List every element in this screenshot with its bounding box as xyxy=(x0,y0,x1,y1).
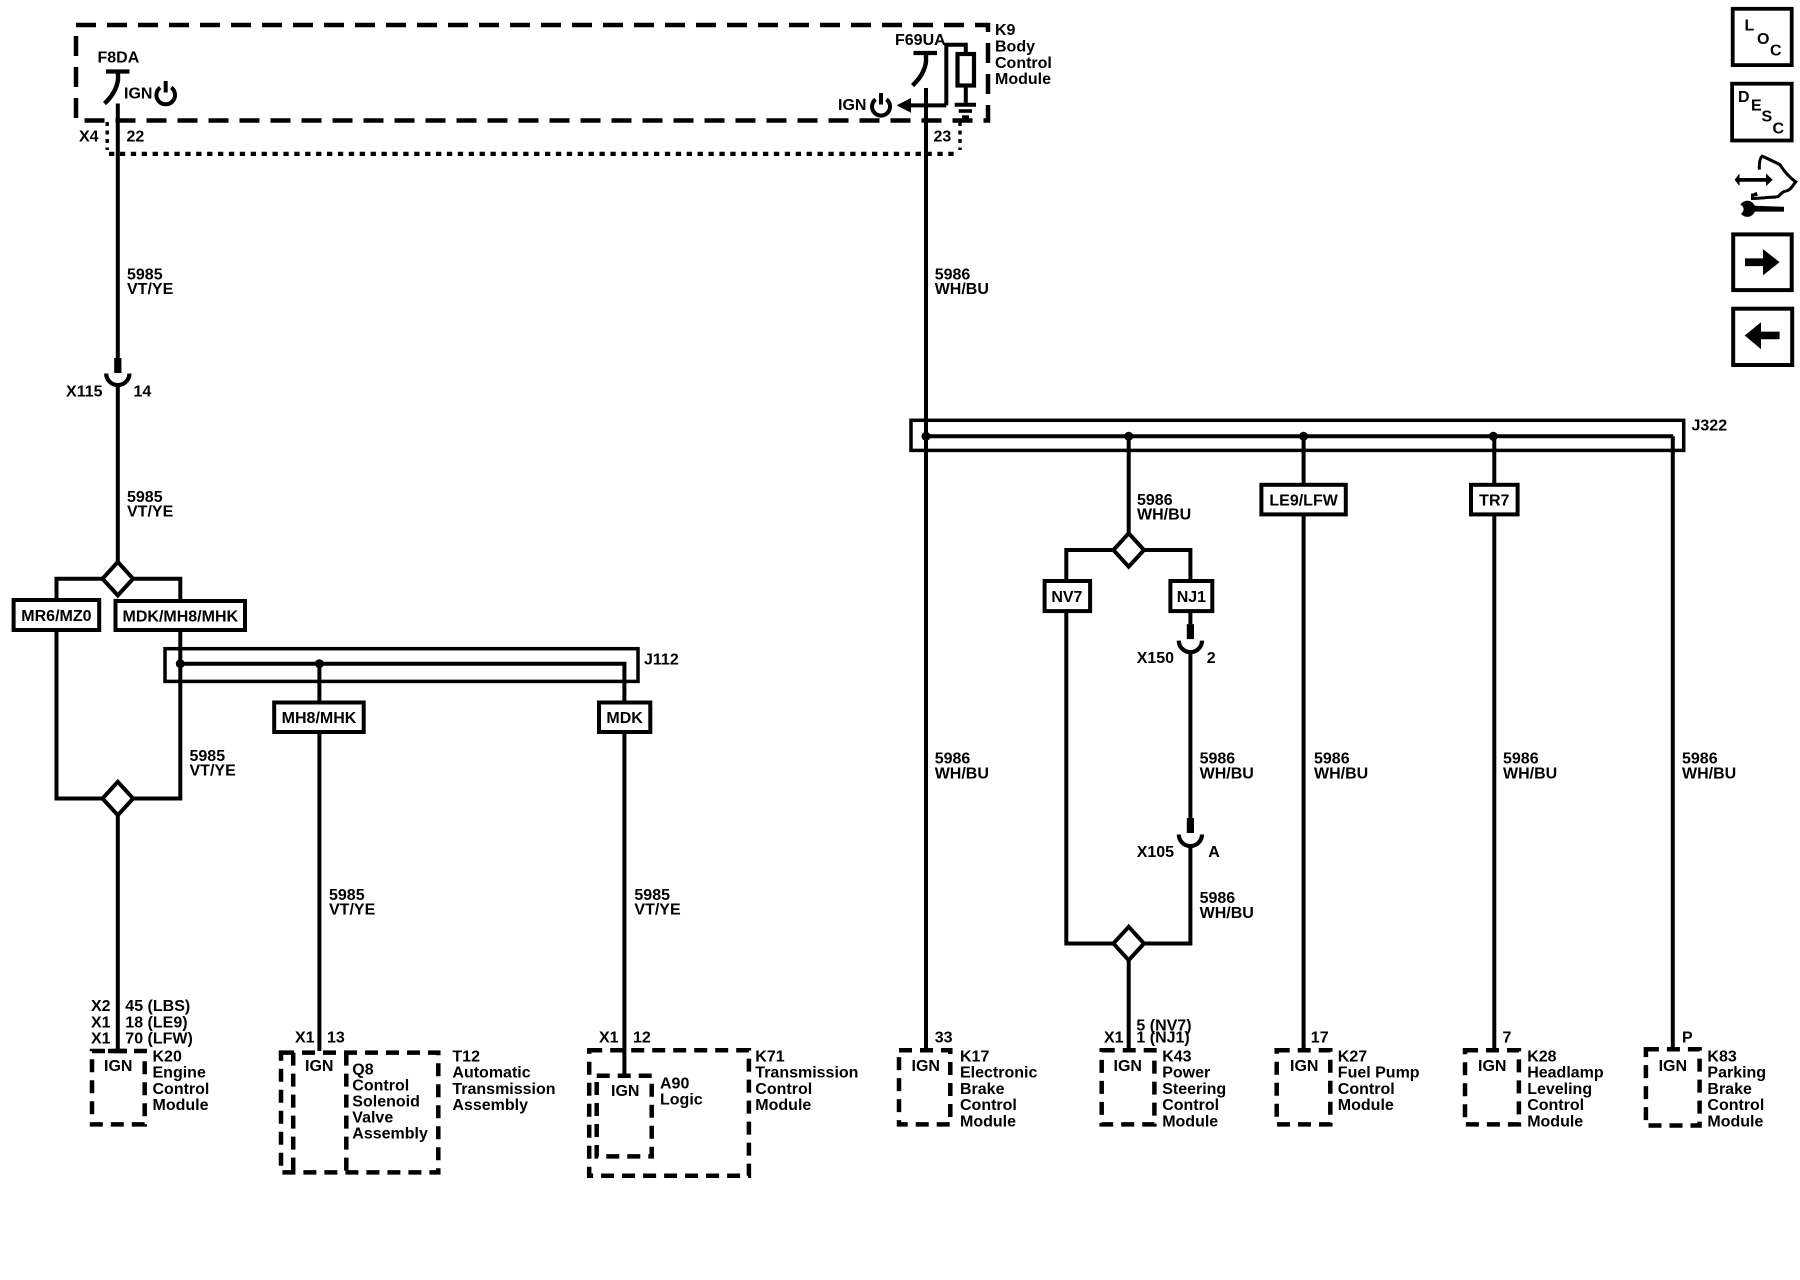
svg-text:Assembly: Assembly xyxy=(352,1125,428,1142)
option box NJ1 xyxy=(1170,581,1212,611)
svg-text:Automatic: Automatic xyxy=(452,1065,530,1082)
wire J322 branch to LE9/LFW xyxy=(1302,436,1306,485)
svg-text:Assembly: Assembly xyxy=(452,1097,528,1114)
svg-text:45 (LBS): 45 (LBS) xyxy=(125,998,190,1015)
svg-text:K20: K20 xyxy=(153,1048,182,1065)
option box MH8/MHK xyxy=(274,703,364,733)
svg-text:Module: Module xyxy=(1338,1097,1394,1114)
wire X150 to X105, 5986 WH/BU xyxy=(1188,652,1192,818)
splice diamond (upper right) xyxy=(1113,533,1144,566)
bus bar J322 xyxy=(911,420,1684,450)
svg-text:Headlamp: Headlamp xyxy=(1527,1065,1604,1082)
K71 pin labels X1 12 xyxy=(599,1030,651,1047)
IGN power symbol (left) xyxy=(124,81,175,104)
svg-text:J112: J112 xyxy=(644,652,679,669)
option box MR6/MZ0 xyxy=(14,600,100,630)
svg-text:K17: K17 xyxy=(960,1048,989,1065)
svg-text:X1: X1 xyxy=(1104,1030,1124,1047)
wire resistor to ground xyxy=(964,86,968,103)
svg-text:X115: X115 xyxy=(66,384,103,401)
svg-text:K27: K27 xyxy=(1338,1048,1367,1065)
svg-text:X150: X150 xyxy=(1137,650,1174,667)
wire to resistor branch xyxy=(946,45,966,106)
wire J322 right end down to K83 xyxy=(1671,436,1675,1049)
hotspot icon (double arrow, outline, wrench) xyxy=(1734,156,1796,217)
svg-text:X1: X1 xyxy=(91,1014,111,1031)
wire NJ1 to X150 xyxy=(1188,611,1192,624)
resistor (pull-down) xyxy=(958,54,975,86)
wire J322 branch to NV7/NJ1 splice xyxy=(1127,436,1131,534)
svg-text:Electronic: Electronic xyxy=(960,1065,1037,1082)
svg-text:Control: Control xyxy=(1707,1097,1764,1114)
svg-text:Body: Body xyxy=(995,39,1035,56)
svg-text:70 (LFW): 70 (LFW) xyxy=(125,1031,193,1048)
svg-text:P: P xyxy=(1682,1030,1693,1047)
K27 module label xyxy=(1338,1048,1420,1114)
svg-text:Power: Power xyxy=(1162,1065,1210,1082)
T12 Automatic Transmission Assembly dashed box xyxy=(281,1053,438,1173)
svg-text:Module: Module xyxy=(1707,1114,1763,1131)
svg-text:L: L xyxy=(1745,18,1755,35)
option box MDK xyxy=(599,703,650,733)
svg-text:Leveling: Leveling xyxy=(1527,1081,1592,1098)
svg-text:Control: Control xyxy=(153,1081,210,1098)
svg-text:VT/YE: VT/YE xyxy=(127,281,174,298)
svg-text:TR7: TR7 xyxy=(1479,492,1509,509)
svg-text:Engine: Engine xyxy=(153,1065,206,1082)
wire MR6/MZ0 down to lower splice xyxy=(57,630,103,799)
svg-text:Parking: Parking xyxy=(1707,1065,1766,1082)
wire J112 branch to MH8/MHK xyxy=(317,664,321,703)
svg-text:MDK: MDK xyxy=(606,710,643,727)
svg-text:F8DA: F8DA xyxy=(98,50,140,67)
K43 pin labels 5 (NV7) / X1 1 (NJ1) xyxy=(1104,1018,1192,1047)
svg-text:14: 14 xyxy=(134,384,152,401)
svg-text:Module: Module xyxy=(1162,1114,1218,1131)
svg-text:WH/BU: WH/BU xyxy=(1682,766,1736,783)
option box MDK/MH8/MHK xyxy=(116,601,246,630)
svg-text:Brake: Brake xyxy=(1707,1081,1752,1098)
svg-text:13: 13 xyxy=(327,1030,345,1047)
svg-text:Transmission: Transmission xyxy=(452,1081,555,1098)
svg-text:IGN: IGN xyxy=(1478,1058,1506,1075)
wire MH8/MHK down to Q8 xyxy=(317,732,321,1051)
K83 Parking Brake Control Module dashed box xyxy=(1646,1049,1700,1125)
K17 module label xyxy=(960,1048,1037,1130)
splice diamond (lower right) xyxy=(1113,927,1144,960)
wire splice down to K43 xyxy=(1127,960,1131,1050)
svg-text:C: C xyxy=(1770,43,1782,60)
svg-text:Module: Module xyxy=(960,1114,1016,1131)
svg-text:33: 33 xyxy=(935,1030,953,1047)
svg-text:IGN: IGN xyxy=(912,1058,940,1075)
svg-text:K43: K43 xyxy=(1162,1048,1191,1065)
LOC button xyxy=(1733,9,1792,65)
Q8/T12 pin labels X1 13 xyxy=(295,1030,345,1047)
svg-text:WH/BU: WH/BU xyxy=(1503,766,1557,783)
wire LE9/LFW to K27 xyxy=(1302,514,1306,1050)
svg-text:A90: A90 xyxy=(660,1075,689,1092)
svg-text:X1: X1 xyxy=(295,1030,315,1047)
K17 Electronic Brake Control Module dashed box xyxy=(899,1050,950,1124)
svg-text:NJ1: NJ1 xyxy=(1177,589,1206,606)
A90 label xyxy=(660,1075,703,1108)
svg-text:MDK/MH8/MHK: MDK/MH8/MHK xyxy=(123,608,239,625)
connector X105 pin A xyxy=(1179,818,1202,846)
svg-text:X1: X1 xyxy=(91,1031,111,1048)
wire splice to MDK/MH8/MHK xyxy=(133,579,180,601)
svg-text:Q8: Q8 xyxy=(352,1062,373,1079)
wire TR7 to K28 xyxy=(1492,514,1496,1050)
svg-text:Control: Control xyxy=(1338,1081,1395,1098)
svg-text:18 (LE9): 18 (LE9) xyxy=(125,1014,187,1031)
K83 module label xyxy=(1707,1048,1766,1130)
wire X105 to lower splice xyxy=(1144,847,1190,944)
connector X150 pin 2 xyxy=(1179,624,1202,652)
svg-text:Control: Control xyxy=(755,1081,812,1098)
fuse F69UA xyxy=(913,53,938,86)
svg-text:K28: K28 xyxy=(1527,1048,1556,1065)
K20 module label xyxy=(153,1048,210,1114)
svg-text:IGN: IGN xyxy=(838,97,866,114)
svg-text:J322: J322 xyxy=(1692,418,1728,435)
svg-text:Control: Control xyxy=(1162,1097,1219,1114)
svg-text:E: E xyxy=(1751,98,1762,115)
wire MDK down to A90 xyxy=(622,732,626,1076)
wire splice to MR6/MZ0 xyxy=(57,579,103,600)
svg-text:2: 2 xyxy=(1207,650,1216,667)
svg-text:22: 22 xyxy=(127,129,145,146)
IGN power symbol with arrow (right) xyxy=(838,93,946,116)
svg-text:MH8/MHK: MH8/MHK xyxy=(282,710,357,727)
K28 module label xyxy=(1527,1048,1604,1130)
svg-text:Control: Control xyxy=(1527,1097,1584,1114)
svg-text:Control: Control xyxy=(960,1097,1017,1114)
svg-text:Module: Module xyxy=(995,71,1051,88)
svg-text:IGN: IGN xyxy=(305,1058,333,1075)
wire 5985 VT/YE from F8DA to X115 xyxy=(116,104,120,359)
fuse F8DA xyxy=(105,72,130,104)
svg-text:VT/YE: VT/YE xyxy=(634,902,681,919)
connector X4 band separator (dotted) xyxy=(107,122,960,154)
svg-text:17: 17 xyxy=(1311,1030,1329,1047)
wire J322 branch to TR7 xyxy=(1492,436,1496,485)
K9 Body Control Module label xyxy=(995,22,1052,88)
svg-text:VT/YE: VT/YE xyxy=(127,504,174,521)
Q8 Control Solenoid Valve Assembly label xyxy=(352,1062,428,1143)
svg-text:WH/BU: WH/BU xyxy=(1137,507,1191,524)
K20 Engine Control Module dashed box xyxy=(92,1051,145,1124)
wire splice down to K20 xyxy=(116,815,120,1051)
option box TR7 xyxy=(1471,485,1518,515)
svg-text:Transmission: Transmission xyxy=(755,1065,858,1082)
svg-text:WH/BU: WH/BU xyxy=(935,281,989,298)
back arrow button xyxy=(1733,309,1792,365)
K43 Power Steering Control Module dashed box xyxy=(1102,1050,1155,1124)
K9 Body Control Module dashed box xyxy=(76,25,988,121)
svg-text:F69UA: F69UA xyxy=(895,32,946,49)
K71 module label xyxy=(755,1048,858,1114)
svg-text:Logic: Logic xyxy=(660,1091,703,1108)
svg-text:MR6/MZ0: MR6/MZ0 xyxy=(21,608,91,625)
svg-text:1 (NJ1): 1 (NJ1) xyxy=(1136,1030,1189,1047)
option box LE9/LFW xyxy=(1261,485,1345,515)
svg-text:K9: K9 xyxy=(995,22,1016,39)
svg-text:Control: Control xyxy=(352,1078,409,1095)
bus bar J112 xyxy=(165,649,638,703)
svg-text:VT/YE: VT/YE xyxy=(190,763,237,780)
svg-text:O: O xyxy=(1757,31,1769,48)
svg-text:Valve: Valve xyxy=(352,1109,393,1126)
svg-text:Module: Module xyxy=(755,1097,811,1114)
svg-text:WH/BU: WH/BU xyxy=(1200,766,1254,783)
svg-text:IGN: IGN xyxy=(1659,1058,1687,1075)
svg-text:X1: X1 xyxy=(599,1030,619,1047)
svg-text:12: 12 xyxy=(633,1030,651,1047)
next arrow button xyxy=(1733,234,1792,290)
svg-text:NV7: NV7 xyxy=(1051,589,1082,606)
svg-text:VT/YE: VT/YE xyxy=(329,902,376,919)
svg-text:Brake: Brake xyxy=(960,1081,1005,1098)
svg-text:Control: Control xyxy=(995,55,1052,72)
svg-text:Fuel Pump: Fuel Pump xyxy=(1338,1065,1420,1082)
wire J322 to K17 xyxy=(924,436,928,1050)
DESC button xyxy=(1732,84,1792,141)
wire 5986 WH/BU from F69UA to J322 xyxy=(924,88,928,436)
svg-text:WH/BU: WH/BU xyxy=(1314,766,1368,783)
connector X115 pin 14 xyxy=(106,358,129,385)
option box NV7 xyxy=(1045,581,1091,611)
splice diamond (upper left) xyxy=(103,562,134,595)
svg-text:7: 7 xyxy=(1503,1030,1512,1047)
wire splice to NJ1 xyxy=(1144,550,1190,581)
K27 Fuel Pump Control Module dashed box xyxy=(1277,1050,1331,1124)
svg-text:IGN: IGN xyxy=(1290,1058,1318,1075)
T12 module label xyxy=(452,1048,555,1114)
svg-text:A: A xyxy=(1208,844,1220,861)
svg-text:K71: K71 xyxy=(755,1048,784,1065)
splice diamond (lower left) xyxy=(103,782,134,815)
svg-text:Solenoid: Solenoid xyxy=(352,1094,420,1111)
svg-text:Steering: Steering xyxy=(1162,1081,1226,1098)
wire splice to NV7 xyxy=(1066,550,1113,581)
ground symbol xyxy=(955,105,976,117)
wire NV7 to lower splice xyxy=(1066,611,1113,943)
svg-text:IGN: IGN xyxy=(1114,1058,1142,1075)
svg-text:IGN: IGN xyxy=(611,1083,639,1100)
svg-text:S: S xyxy=(1762,109,1773,126)
A90 Logic dashed box xyxy=(597,1076,652,1157)
svg-text:IGN: IGN xyxy=(104,1058,132,1075)
K43 module label xyxy=(1162,1048,1226,1130)
svg-text:T12: T12 xyxy=(452,1048,480,1065)
svg-text:23: 23 xyxy=(934,129,952,146)
svg-text:WH/BU: WH/BU xyxy=(935,766,989,783)
svg-text:IGN: IGN xyxy=(124,86,152,103)
wire MDK/MH8/MHK down through J112 to lower splice xyxy=(133,630,180,799)
svg-text:C: C xyxy=(1773,121,1785,138)
svg-text:WH/BU: WH/BU xyxy=(1200,905,1254,922)
svg-text:D: D xyxy=(1738,89,1750,106)
svg-text:K83: K83 xyxy=(1707,1048,1736,1065)
svg-text:LE9/LFW: LE9/LFW xyxy=(1269,492,1338,509)
K71 Transmission Control Module dashed box xyxy=(589,1050,749,1176)
K20 pin labels X2 45 (LBS) / X1 18 (LE9) / X1 70 (LFW) xyxy=(91,998,193,1048)
svg-text:X2: X2 xyxy=(91,998,111,1015)
svg-text:Module: Module xyxy=(153,1097,209,1114)
K28 Headlamp Leveling Control Module dashed box xyxy=(1465,1050,1519,1124)
svg-text:X4: X4 xyxy=(79,129,99,146)
svg-text:Module: Module xyxy=(1527,1114,1583,1131)
svg-text:X105: X105 xyxy=(1137,844,1174,861)
wire 5985 VT/YE from X115 to splice xyxy=(116,385,120,563)
